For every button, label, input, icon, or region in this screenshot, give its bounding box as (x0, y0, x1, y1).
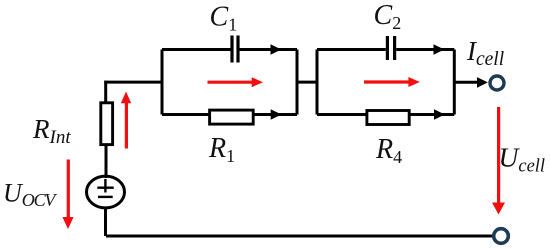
svg-text:R4: R4 (375, 134, 402, 167)
svg-text:UOCV: UOCV (3, 179, 57, 211)
svg-text:R1: R1 (208, 133, 235, 166)
svg-text:Ucell: Ucell (499, 142, 546, 177)
svg-text:C2: C2 (374, 0, 402, 33)
svg-text:C1: C1 (210, 2, 238, 35)
svg-text:RInt: RInt (32, 114, 71, 148)
svg-text:Icell: Icell (466, 36, 504, 70)
